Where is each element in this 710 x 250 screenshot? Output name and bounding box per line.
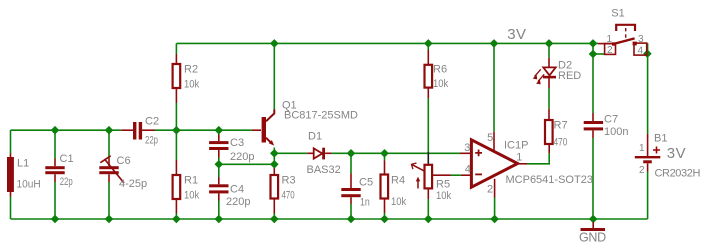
wire D2 top stub: [548, 43, 550, 57]
capacitor C7: [584, 114, 629, 138]
wire IC output to R7 node: [527, 153, 549, 164]
svg-text:GND: GND: [579, 230, 606, 244]
wire C5 pin bottom: [350, 197, 352, 204]
wire R6 pin top: [427, 50, 429, 65]
wire C1 column bottom: [54, 182, 56, 219]
wire IC pin4 stub: [461, 174, 471, 176]
wire L1 pin bottom: [10, 192, 12, 197]
svg-text:R4: R4: [391, 175, 405, 187]
svg-text:MCP6541-SOT23: MCP6541-SOT23: [506, 174, 593, 186]
node rail-R6: [424, 39, 433, 48]
node gnd-GND symbol: [589, 215, 598, 224]
op-amp IC1: [464, 132, 593, 195]
svg-text:IC1P: IC1P: [504, 140, 528, 152]
wire Q1 emitter down to R3: [273, 148, 275, 169]
wire IC pin2 stub: [494, 179, 496, 198]
node gnd-C4: [215, 215, 224, 224]
wire C4 bottom: [218, 201, 220, 220]
svg-text:4: 4: [638, 46, 644, 57]
node gnd-R3: [270, 215, 279, 224]
capacitor C4: [209, 183, 250, 208]
node mid-C3C4: [215, 160, 224, 169]
svg-text:CR2032H: CR2032H: [655, 167, 701, 179]
node tank-R2R1: [172, 126, 181, 135]
wire C6 column bottom: [108, 182, 110, 219]
wire R5 wiper to IC pin4: [451, 174, 461, 176]
svg-text:2: 2: [607, 45, 613, 56]
node tank-C6: [105, 126, 114, 135]
svg-text:10k: 10k: [391, 196, 407, 208]
svg-text:BC817-25SMD: BC817-25SMD: [284, 110, 358, 122]
wire R3 pin top: [273, 168, 275, 175]
node D1 wire-R4: [380, 149, 389, 158]
svg-text:3V: 3V: [507, 26, 526, 43]
potentiometer R5: [412, 163, 452, 202]
wire C1 pin bottom: [54, 174, 56, 182]
svg-text:C1: C1: [60, 153, 74, 165]
svg-text:1n: 1n: [360, 197, 370, 209]
wire R5 bottom: [427, 199, 429, 219]
svg-text:RED: RED: [558, 70, 581, 82]
wire D1 pin right: [325, 152, 332, 154]
svg-text:3: 3: [638, 34, 644, 45]
resistor R3: [271, 175, 296, 202]
wire R1 pin top: [175, 160, 177, 175]
wire C3 pin bottom: [218, 150, 220, 158]
wire C6 column top: [108, 130, 110, 158]
svg-text:22p: 22p: [60, 176, 73, 188]
wire R1 column top: [175, 130, 177, 160]
wire C3 column top: [218, 130, 220, 134]
svg-text:100n: 100n: [604, 126, 628, 138]
wire C3 bottom to mid node: [218, 158, 220, 165]
wire C2 pin right: [142, 129, 155, 131]
svg-text:220p: 220p: [226, 196, 250, 208]
node tank-C1: [51, 126, 60, 135]
svg-text:2: 2: [639, 165, 645, 176]
diode D1: [307, 131, 341, 177]
wire IC pin1 output stub: [518, 163, 527, 165]
svg-text:R7: R7: [554, 120, 568, 132]
wire C4 pin bottom: [218, 193, 220, 200]
svg-text:10k: 10k: [184, 79, 200, 91]
wire C5 column top: [350, 153, 352, 173]
wire R2 top stub: [175, 43, 177, 54]
wire IC pin5 from rail: [493, 43, 495, 131]
wire GND symbol stub: [592, 219, 594, 222]
wire battery pin2 stub: [647, 163, 649, 171]
svg-text:4-25p: 4-25p: [119, 178, 147, 190]
wire IC pin2 to ground rail: [494, 198, 496, 220]
svg-text:R3: R3: [282, 175, 296, 187]
svg-text:10k: 10k: [436, 190, 452, 202]
wire R5 pin bottom: [427, 188, 429, 199]
wire D1 node to diode: [274, 152, 307, 154]
wire R5 wiper pin: [433, 174, 451, 176]
wire C4 pin top: [218, 177, 220, 184]
svg-text:22p: 22p: [145, 135, 158, 147]
node D1 wire-C5: [347, 149, 356, 158]
svg-text:3: 3: [464, 142, 470, 154]
svg-text:R1: R1: [184, 175, 198, 187]
wire C5 column bottom: [350, 204, 352, 219]
inductor L1: [7, 157, 41, 192]
wire C1 pin top: [54, 159, 56, 167]
svg-text:1: 1: [639, 143, 645, 154]
wire C7 column top: [592, 43, 594, 113]
svg-text:10k: 10k: [184, 190, 200, 202]
capacitor C1: [45, 153, 73, 188]
wire D2 to R7: [548, 88, 550, 109]
svg-text:2: 2: [487, 184, 493, 196]
resistor R6: [425, 63, 449, 90]
svg-text:470: 470: [554, 137, 568, 149]
wire C7 pin bottom: [592, 130, 594, 138]
svg-text:R2: R2: [184, 64, 198, 76]
svg-text:C4: C4: [230, 183, 244, 195]
wire R1 column bottom: [175, 214, 177, 220]
wire R6 bottom long: [427, 98, 429, 152]
wire R1 pin bottom: [175, 199, 177, 214]
node gnd-R5: [424, 215, 433, 224]
svg-text:220p: 220p: [230, 151, 254, 163]
svg-text:R6: R6: [433, 63, 447, 75]
wire L1 column top: [10, 130, 12, 153]
wire R7 pin bottom: [548, 144, 550, 153]
wire C4 top from mid node: [218, 164, 220, 177]
wire top 3V rail: [176, 42, 598, 44]
wire C6 pin bottom: [108, 174, 110, 182]
svg-text:10uH: 10uH: [17, 178, 41, 190]
capacitor C5: [341, 177, 373, 209]
svg-text:5: 5: [487, 132, 493, 144]
wire D2 pin top: [548, 58, 550, 67]
wire tank horizontal left: [11, 129, 122, 131]
resistor R1: [173, 175, 200, 202]
wire R4 column top: [384, 153, 386, 160]
wire C6 pin top: [108, 159, 110, 167]
wire R6 pin bottom: [427, 88, 429, 98]
resistor R2: [173, 64, 200, 91]
node S1 pin2: [589, 50, 598, 59]
wire mid node to emitter: [219, 163, 274, 165]
wire R2 pin bottom: [175, 88, 177, 103]
svg-text:3V: 3V: [667, 145, 686, 162]
svg-text:10k: 10k: [433, 78, 449, 90]
wire C2 pin left: [121, 129, 133, 131]
battery B1: [635, 133, 701, 180]
node gnd-R1: [172, 215, 181, 224]
wire L1 column bottom: [10, 197, 12, 220]
svg-text:4: 4: [465, 164, 471, 176]
svg-text:C2: C2: [145, 116, 159, 128]
node emitter-D1: [270, 149, 279, 158]
wire R6-R5 overlap link (black): [427, 152, 429, 165]
node gnd-R4: [380, 215, 389, 224]
svg-text:B1: B1: [654, 133, 667, 145]
wire battery pin1 stub: [647, 134, 649, 156]
svg-text:R5: R5: [436, 179, 450, 191]
wire R4 pin top: [384, 161, 386, 175]
node rail-D2: [545, 39, 554, 48]
wire C3 pin top: [218, 135, 220, 142]
switch S1: [605, 8, 647, 57]
svg-text:1: 1: [516, 151, 522, 163]
node S1 pin4 battery: [643, 49, 652, 58]
svg-text:1: 1: [607, 34, 613, 45]
capacitor C2: [133, 116, 159, 147]
wire S1 pin1 stub: [598, 43, 612, 45]
wire C7 column bottom: [592, 138, 594, 219]
svg-text:C6: C6: [117, 155, 131, 167]
wire C7 pin top: [592, 113, 594, 121]
svg-text:L1: L1: [17, 157, 29, 169]
svg-text:S1: S1: [611, 8, 624, 20]
svg-text:C7: C7: [604, 114, 618, 126]
capacitor C3: [209, 137, 254, 163]
wire battery column top: [647, 43, 649, 134]
svg-text:470: 470: [282, 190, 295, 202]
node gnd-C6: [105, 215, 114, 224]
wire bottom ground rail: [11, 218, 648, 220]
capacitor C6 trimmer: [99, 155, 147, 190]
transistor Q1: [262, 100, 358, 146]
ground GND symbol: [579, 222, 606, 244]
LED D2: [533, 60, 582, 85]
wire battery column bottom: [647, 172, 649, 220]
node gnd-C5: [347, 215, 356, 224]
wire R4 pin bottom: [384, 199, 386, 214]
svg-text:C3: C3: [230, 137, 244, 149]
wire R2 pin top: [175, 54, 177, 64]
wire S1 pin2 stub: [593, 53, 605, 55]
svg-text:BAS32: BAS32: [307, 164, 341, 176]
wire R6 top stub: [427, 43, 429, 50]
resistor R7: [545, 120, 568, 149]
wire Q1 base pin: [252, 129, 261, 131]
wire D2 pin bottom: [548, 78, 550, 88]
node tank-C3: [215, 126, 224, 135]
wire C5 pin top: [350, 174, 352, 189]
node rail-S1 pin1: [589, 39, 598, 48]
wire IC pin3 stub: [460, 152, 471, 154]
wire L1 pin top: [10, 154, 12, 158]
svg-text:D1: D1: [308, 131, 322, 143]
wire IC pin5 stub: [493, 132, 495, 150]
wire Q1 collector to rail: [273, 43, 275, 110]
wire D1 pin left: [307, 152, 313, 154]
wire R4 column bottom: [384, 213, 386, 219]
node mid-emitter: [270, 160, 279, 169]
node rail-IC pin5: [490, 39, 499, 48]
wire C1 column top: [54, 130, 56, 158]
wire R7 pin top: [548, 109, 550, 120]
wire R2 bottom to tank: [175, 103, 177, 130]
svg-text:C5: C5: [359, 177, 373, 189]
PIN STUBS (dark red): [11, 44, 648, 214]
wire R3 pin bottom: [273, 198, 275, 214]
node gnd-IC pin2: [490, 215, 499, 224]
node rail-Q1 collector: [270, 39, 279, 48]
resistor R4: [381, 175, 407, 209]
wire tank horizontal right of C2: [155, 129, 252, 131]
wire diode to IC pin3: [332, 152, 460, 154]
wire R3 bottom: [273, 214, 275, 220]
node gnd-C1: [51, 215, 60, 224]
